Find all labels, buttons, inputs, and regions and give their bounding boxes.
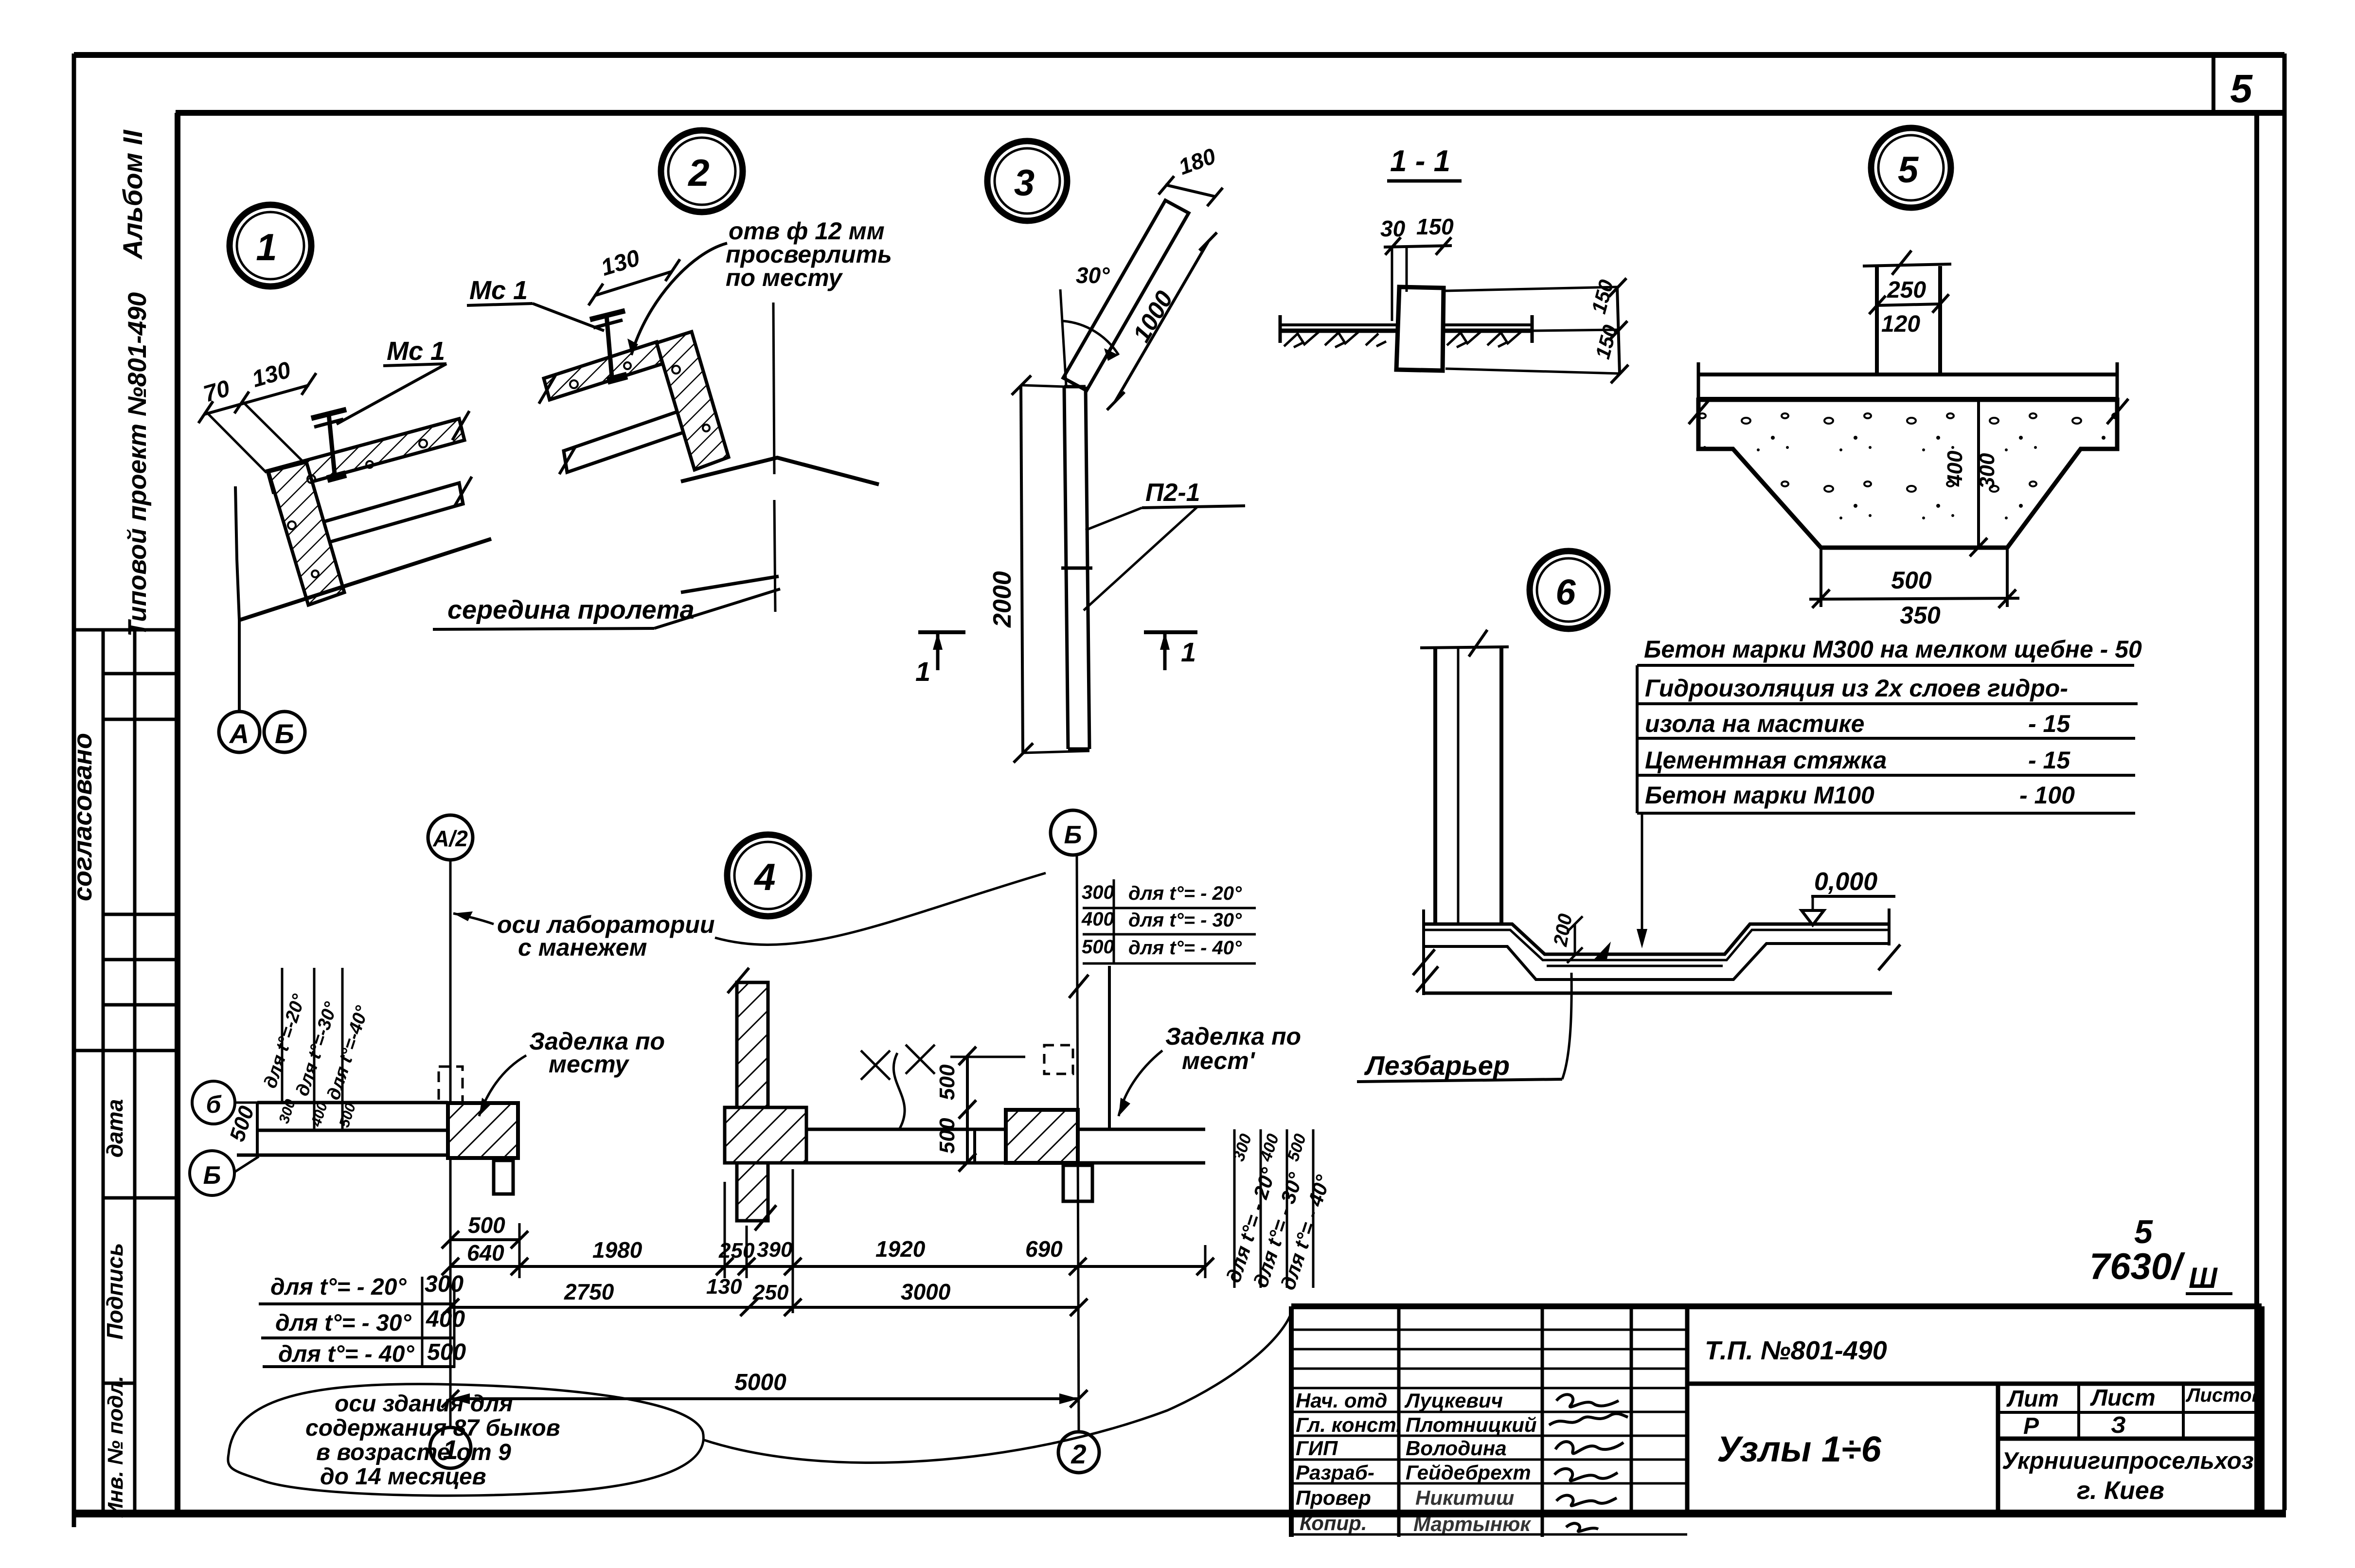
- svg-text:500: 500: [935, 1118, 959, 1154]
- svg-text:Гейдебрехт: Гейдебрехт: [1406, 1461, 1531, 1484]
- svg-text:Бетон марки М100: Бетон марки М100: [1645, 782, 1874, 809]
- big cells: [1687, 1382, 2262, 1386]
- svg-text:7630/: 7630/: [2089, 1246, 2185, 1287]
- svg-text:Провер: Провер: [1296, 1486, 1371, 1509]
- mini table right of axis B: [1081, 882, 1242, 959]
- DETAIL 4: [190, 810, 1335, 1473]
- left corner hatched blob: [268, 462, 344, 605]
- axis circle 2: [1058, 1432, 1099, 1473]
- svg-text:месту: месту: [549, 1051, 629, 1078]
- svg-text:мест': мест': [1182, 1047, 1256, 1074]
- svg-text:согласовано: согласовано: [68, 733, 97, 901]
- 1000 dim along panel: [1115, 242, 1208, 402]
- section marks 1-1 bottom: [918, 630, 965, 634]
- detail circle 1: [230, 205, 311, 286]
- svg-text:Ш: Ш: [2189, 1262, 2218, 1294]
- svg-text:Инв. № подл.: Инв. № подл.: [104, 1376, 127, 1518]
- svg-text:дата: дата: [102, 1099, 127, 1158]
- cloud: [228, 1384, 704, 1496]
- thin rows top: [1291, 1329, 1687, 1331]
- svg-text:1920: 1920: [875, 1236, 926, 1262]
- svg-text:Лист: Лист: [2090, 1385, 2156, 1411]
- chain y=2604: [450, 1265, 1205, 1268]
- cross column center: [737, 982, 768, 1221]
- svg-text:Типовой проект №801-490: Типовой проект №801-490: [123, 292, 152, 637]
- svg-text:500: 500: [935, 1064, 959, 1100]
- sidebar rotated captions: [68, 129, 152, 1518]
- svg-text:Разраб-: Разраб-: [1296, 1461, 1374, 1484]
- DETAIL 6: [1357, 551, 2142, 1082]
- slab between cross and right part: [806, 1128, 975, 1131]
- roof bottom long line: [239, 539, 491, 620]
- svg-text:для t°= - 20°: для t°= - 20°: [1128, 883, 1242, 904]
- svg-text:для t°= - 30°: для t°= - 30°: [275, 1310, 411, 1336]
- svg-text:5000: 5000: [734, 1370, 786, 1395]
- roof slab left hatched: [544, 342, 662, 400]
- svg-text:Т.П. №801-490: Т.П. №801-490: [1705, 1336, 1887, 1365]
- dashed stub above: [439, 1067, 463, 1103]
- svg-text:Никитиш: Никитиш: [1415, 1486, 1514, 1509]
- right 150 150 dims: [1617, 287, 1620, 374]
- stub below slab: [494, 1160, 513, 1194]
- svg-text:5: 5: [1898, 149, 1919, 191]
- signatures squiggles: [1549, 1394, 1628, 1532]
- labels: [1296, 1389, 1537, 1535]
- svg-text:6: 6: [1555, 572, 1576, 612]
- column above floor: [1433, 648, 1437, 923]
- vertical panel P2-1: [1064, 387, 1068, 749]
- 200 dim: [1574, 924, 1576, 955]
- DETAIL 2: [433, 130, 892, 629]
- svg-text:350: 350: [1900, 602, 1941, 629]
- svg-text:по месту: по месту: [726, 264, 843, 291]
- break marks on left ends: [539, 375, 555, 404]
- svg-text:для t°= - 20°: для t°= - 20°: [270, 1274, 407, 1300]
- svg-text:П2-1: П2-1: [1145, 479, 1200, 507]
- svg-text:ГИП: ГИП: [1296, 1437, 1338, 1460]
- detail circle 2: [661, 130, 743, 212]
- svg-text:400: 400: [1943, 450, 1967, 487]
- bolt Mc1: [329, 414, 335, 474]
- svg-text:А/2: А/2: [432, 826, 468, 851]
- svg-text:Луцкевич: Луцкевич: [1404, 1389, 1503, 1412]
- svg-text:2: 2: [687, 151, 709, 194]
- tilted top panel: [1063, 200, 1189, 391]
- svg-text:Альбом II: Альбом II: [117, 129, 148, 260]
- detail 4 dimension chains and tables: [228, 1169, 1292, 1496]
- svg-text:Гл. конст.: Гл. конст.: [1296, 1413, 1402, 1436]
- svg-text:390: 390: [757, 1238, 793, 1262]
- svg-text:Листов: Листов: [2185, 1385, 2264, 1406]
- hatching under ground: [1284, 331, 1522, 347]
- svg-text:1: 1: [1181, 637, 1196, 667]
- svg-text:400: 400: [1081, 909, 1114, 930]
- detail circle 5: [1871, 128, 1951, 208]
- bottom dims 500 350: [1820, 550, 1822, 607]
- axis circle 1: [430, 1427, 471, 1468]
- svg-text:30°: 30°: [1076, 263, 1110, 288]
- svg-text:2750: 2750: [564, 1279, 614, 1304]
- svg-text:г. Киев: г. Киев: [2077, 1477, 2164, 1505]
- left slab: [257, 1101, 448, 1105]
- axis B circle: [1051, 810, 1095, 855]
- lower panel: [564, 410, 685, 472]
- svg-text:Б: Б: [1064, 821, 1082, 849]
- svg-text:для t°= - 30°: для t°= - 30°: [1128, 909, 1242, 931]
- svg-text:Нач. отд: Нач. отд: [1296, 1389, 1387, 1412]
- svg-text:Плотницкий: Плотницкий: [1406, 1413, 1537, 1436]
- svg-text:Б: Б: [275, 718, 294, 749]
- svg-text:Гидроизоляция из 2х слоев гидр: Гидроизоляция из 2х слоев гидро-: [1645, 675, 2068, 702]
- rotated table right bottom: [1233, 1129, 1236, 1288]
- detail circle 6: [1530, 551, 1607, 629]
- DETAIL 5: [1689, 128, 2128, 629]
- axis line left: [449, 860, 452, 1427]
- lit list listov: [1996, 1384, 2000, 1511]
- svg-text:1980: 1980: [592, 1237, 642, 1263]
- foundation trapezoid with speckles: [1698, 400, 2117, 548]
- detail circle 4: [727, 835, 809, 916]
- svg-text:500: 500: [1891, 567, 1932, 594]
- 2000 dim: [1021, 385, 1023, 753]
- svg-text:для t°= - 40°: для t°= - 40°: [278, 1341, 414, 1367]
- axis circles A B: [219, 712, 260, 752]
- svg-text:в возрасте от 9: в возрасте от 9: [316, 1440, 511, 1465]
- svg-text:Мартынюк: Мартынюк: [1413, 1513, 1531, 1535]
- detail circle 3: [987, 141, 1067, 221]
- svg-text:- 15: - 15: [2028, 710, 2070, 737]
- post: [1396, 287, 1444, 371]
- svg-text:250: 250: [1887, 277, 1926, 303]
- lower panel: [318, 483, 463, 544]
- ridge chords below: [681, 458, 879, 484]
- svg-text:2: 2: [1070, 1439, 1086, 1469]
- svg-text:Бетон марки М300 на мелком ще: Бетон марки М300 на мелком щебне - 50: [1644, 636, 2142, 663]
- svg-text:б: б: [206, 1091, 222, 1118]
- left table для t: [270, 1271, 466, 1367]
- svg-text:Подпись: Подпись: [102, 1243, 127, 1340]
- svg-text:с манежем: с манежем: [518, 934, 647, 961]
- title block (stamp): [1291, 1306, 2264, 1537]
- svg-text:300: 300: [1082, 882, 1114, 903]
- vertical dim 500 500 left of right structure: [966, 1055, 969, 1163]
- sidebar grid lines: [74, 630, 178, 1513]
- svg-text:Лезбарьер: Лезбарьер: [1364, 1050, 1510, 1081]
- svg-text:для t°= - 40°: для t°= - 40°: [1128, 937, 1242, 959]
- layers table: [1644, 636, 2142, 809]
- svg-text:150: 150: [1416, 214, 1454, 239]
- leader from table to floor: [1641, 813, 1643, 936]
- svg-text:до 14 месяцев: до 14 месяцев: [320, 1464, 486, 1490]
- DETAIL 1: [198, 205, 491, 752]
- slab: [1698, 373, 2117, 376]
- named rows: [1291, 1411, 1687, 1413]
- right structure slab: [975, 1128, 1205, 1131]
- svg-text:30: 30: [1380, 216, 1406, 241]
- chain y=2688: [450, 1306, 1079, 1309]
- svg-text:1 - 1: 1 - 1: [1390, 144, 1450, 178]
- svg-text:690: 690: [1025, 1236, 1063, 1262]
- svg-text:изола на мастике: изола на мастике: [1645, 710, 1864, 737]
- svg-text:130: 130: [706, 1275, 742, 1299]
- hatched beam block left: [448, 1103, 518, 1158]
- midspan axis: [773, 303, 774, 474]
- 400 300 dims: [1977, 398, 1980, 549]
- SECTION 1-1: [1279, 144, 1628, 383]
- svg-text:300: 300: [425, 1271, 464, 1297]
- break marks right end: [452, 411, 469, 440]
- svg-text:Лит: Лит: [2006, 1386, 2059, 1412]
- svg-text:Укрниигипросельхоз: Укрниигипросельхоз: [2002, 1448, 2254, 1474]
- svg-text:250: 250: [718, 1239, 755, 1263]
- svg-text:содержания 87 быков: содержания 87 быков: [305, 1415, 560, 1441]
- svg-text:- 100: - 100: [2019, 782, 2075, 809]
- svg-text:400: 400: [426, 1306, 465, 1332]
- X break symbol: [861, 1045, 935, 1128]
- svg-text:Мс 1: Мс 1: [387, 337, 445, 366]
- DETAIL 3: [915, 141, 1245, 763]
- svg-text:120: 120: [1881, 311, 1920, 337]
- break slashes: [1413, 949, 1435, 975]
- svg-text:500: 500: [427, 1339, 466, 1365]
- svg-text:500: 500: [468, 1212, 505, 1238]
- svg-text:- 15: - 15: [2028, 747, 2070, 774]
- svg-text:640: 640: [467, 1240, 504, 1265]
- svg-text:Узлы 1÷6: Узлы 1÷6: [1717, 1429, 1882, 1469]
- svg-text:5: 5: [2134, 1213, 2153, 1250]
- stub below right slab: [1063, 1165, 1092, 1201]
- roof slab hatched: [268, 419, 464, 492]
- svg-text:Заделка по: Заделка по: [1165, 1023, 1301, 1050]
- svg-text:А: А: [229, 718, 249, 749]
- svg-text:З: З: [2111, 1412, 2126, 1438]
- bolt: [607, 315, 612, 377]
- svg-text:середина пролета: середина пролета: [447, 595, 695, 624]
- svg-text:3: 3: [1014, 162, 1035, 204]
- left grid verticals: [1397, 1306, 1401, 1537]
- svg-text:Копир.: Копир.: [1300, 1512, 1367, 1534]
- svg-text:4: 4: [753, 855, 775, 898]
- axis A/2 circle: [428, 815, 473, 860]
- column: [1875, 266, 1879, 374]
- svg-text:0,000: 0,000: [1814, 868, 1877, 896]
- svg-text:300: 300: [1975, 453, 1999, 489]
- svg-text:Б: Б: [203, 1161, 221, 1190]
- svg-text:оси здания для: оси здания для: [335, 1391, 513, 1417]
- chain y=2876: [450, 1397, 1079, 1400]
- axis line down to circles: [235, 486, 239, 711]
- svg-text:Володина: Володина: [1406, 1437, 1507, 1460]
- 30 degree angle: [1060, 289, 1066, 385]
- svg-text:500: 500: [1082, 936, 1114, 958]
- svg-text:1: 1: [256, 226, 277, 268]
- floor profile: [1424, 924, 1889, 954]
- svg-text:250: 250: [752, 1281, 789, 1304]
- descending gable band hatched: [657, 332, 729, 470]
- svg-text:Цементная стяжка: Цементная стяжка: [1645, 747, 1887, 774]
- svg-text:2000: 2000: [988, 571, 1017, 628]
- axis circles b and B left: [192, 1081, 235, 1124]
- svg-text:1: 1: [915, 656, 930, 687]
- svg-text:Р: Р: [2023, 1413, 2039, 1439]
- axis line right: [1077, 855, 1079, 1432]
- svg-text:Мс 1: Мс 1: [469, 276, 528, 305]
- ground lines: [1279, 323, 1399, 326]
- svg-text:5: 5: [2230, 67, 2253, 111]
- document number 7630/III: [2089, 1213, 2232, 1294]
- svg-text:3000: 3000: [901, 1279, 951, 1304]
- break slashes: [1689, 399, 1710, 424]
- left rotated dim labels: [281, 968, 284, 1103]
